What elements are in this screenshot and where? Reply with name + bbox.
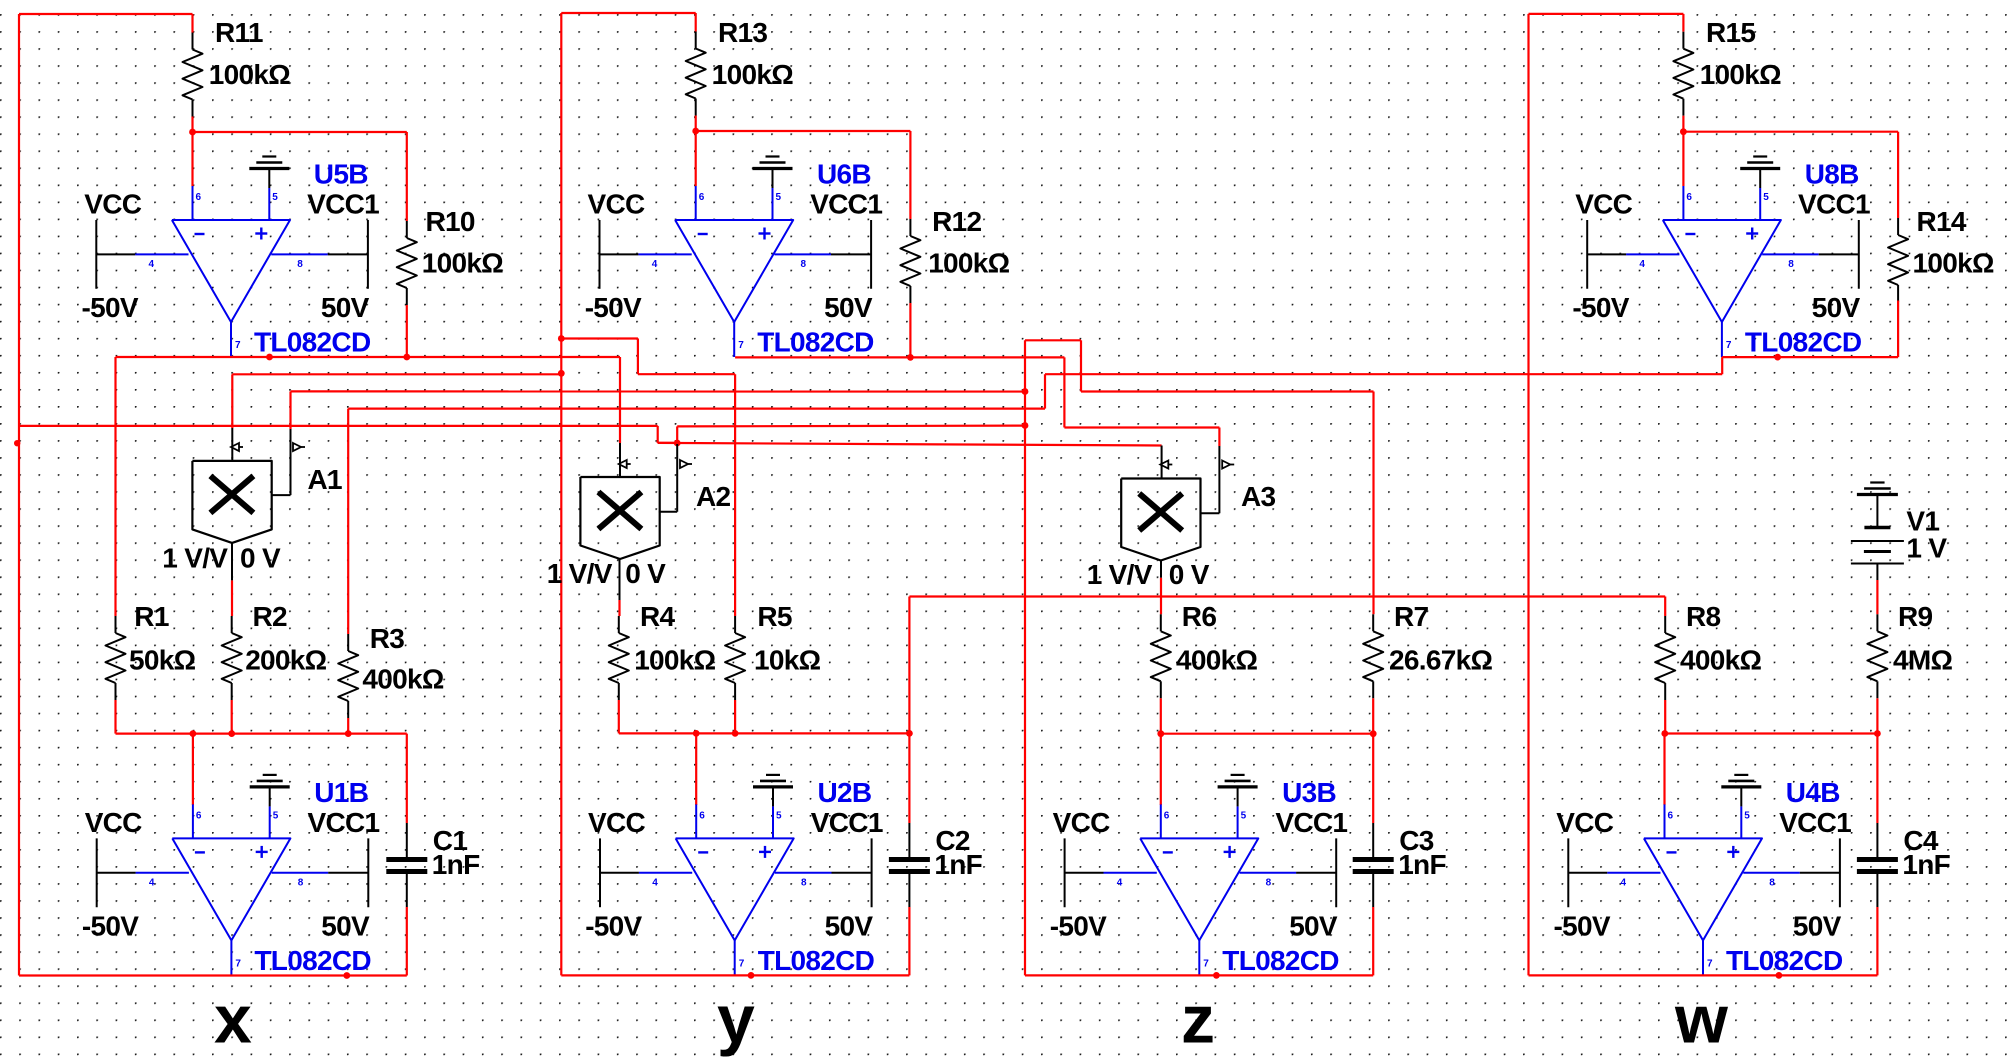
wire: R8 bottom to summing bus: [1664, 700, 1666, 734]
svg-text:6: 6: [1686, 192, 1692, 203]
wire: U1B summing bus (inverting node): [116, 732, 407, 734]
A3 y input pin: [1218, 446, 1220, 513]
VCC1/50V rail stub of U5B: [367, 220, 369, 289]
wire: top feed to R15: [1529, 13, 1684, 15]
svg-text:R8: R8: [1686, 601, 1721, 632]
svg-text:R1: R1: [134, 601, 169, 632]
wire: U6B minus input from node: [695, 131, 697, 186]
junction bus5b end on z border: [1022, 422, 1029, 429]
svg-text:-50V: -50V: [585, 911, 642, 942]
wire: R8 top from y summing line: [1664, 597, 1666, 617]
wire: U5B minus input from node: [191, 132, 193, 186]
svg-text:8: 8: [1266, 877, 1272, 888]
svg-text:R12: R12: [932, 206, 981, 237]
wire: U6B bus corner down (y to A3): [1063, 357, 1065, 427]
svg-text:6: 6: [196, 192, 202, 203]
ground above V1: [1857, 483, 1898, 495]
junction R3 on summing bus: [345, 730, 352, 737]
resistor R13 100kΩ: [686, 17, 794, 115]
svg-text:4: 4: [1117, 877, 1123, 888]
junction R10 bottom on output bus: [403, 354, 410, 361]
svg-text:R13: R13: [718, 17, 767, 48]
U3B inverting input pin (6): [1160, 804, 1162, 838]
VCC rail stub of U1B: [96, 838, 98, 907]
wire: w feedback left border (U4B output up to R15): [1527, 14, 1529, 976]
junction R7/C3 on summing bus: [1370, 730, 1377, 737]
U2B V- power pin wire: [639, 872, 692, 874]
ground: [753, 157, 793, 169]
svg-text:6: 6: [699, 192, 705, 203]
svg-text:100kΩ: 100kΩ: [422, 248, 503, 279]
svg-text:4: 4: [1621, 877, 1627, 888]
svg-text:-50V: -50V: [1572, 292, 1629, 323]
svg-text:U2B: U2B: [818, 777, 872, 808]
resistor R4 100kΩ: [609, 601, 716, 700]
wire: y net across to A3 y input: [1064, 426, 1219, 428]
svg-text:100kΩ: 100kΩ: [928, 248, 1009, 279]
svg-text:5: 5: [272, 192, 278, 203]
wire: x net to A3 x input (long): [658, 443, 1162, 446]
svg-text:1 V/V: 1 V/V: [547, 558, 613, 589]
U5B V- power pin wire: [135, 253, 188, 255]
svg-text:VCC1: VCC1: [1798, 189, 1870, 220]
svg-text:50V: 50V: [321, 292, 370, 323]
svg-text:5: 5: [776, 192, 782, 203]
U3B ground stub on + input: [1237, 787, 1239, 807]
resistor R9 4MΩ: [1867, 601, 1952, 698]
wire: bus4 jog up: [1044, 374, 1046, 408]
wire: L1 to R5 drop: [638, 373, 735, 375]
A1 y input pin: [290, 429, 292, 495]
svg-text:8: 8: [801, 259, 807, 270]
U4B minus mark: [1667, 851, 1677, 853]
wire: U2B output bus (y node): [561, 974, 909, 976]
wire: summing bus down to U4B minus input: [1663, 734, 1665, 806]
wire: U1B output bus (x node): [19, 974, 407, 976]
svg-text:1nF: 1nF: [1902, 849, 1950, 880]
op-amp U6B TL082CD: [585, 157, 883, 358]
svg-text:1 V: 1 V: [1906, 533, 1947, 564]
U5B V+ power pin wire: [271, 253, 328, 255]
resistor R7 26.67kΩ: [1363, 601, 1492, 698]
svg-text:50V: 50V: [321, 911, 370, 942]
wire: x feedback left border (U1B output up to R11): [18, 14, 20, 976]
U5B inverting input pin (6): [192, 186, 194, 220]
VCC1/50V rail stub of U8B: [1858, 220, 1860, 289]
U2B ground stub on + input: [772, 787, 774, 807]
U2B minus mark: [698, 851, 708, 853]
U5B minus mark: [195, 233, 205, 235]
U8B V+ power pin wire: [1762, 253, 1819, 255]
wire: summing bus to C2 top: [908, 733, 910, 823]
svg-text:U1B: U1B: [314, 777, 368, 808]
wire: ground to battery: [1876, 495, 1878, 528]
resistor R1 50kΩ: [106, 601, 196, 700]
VCC1/50V rail stub of U3B: [1335, 838, 1337, 907]
wire: y summing node to R8 (long): [909, 595, 1665, 597]
svg-text:8: 8: [1769, 877, 1775, 888]
svg-text:4MΩ: 4MΩ: [1893, 645, 1952, 676]
A1 output pin: [231, 542, 233, 580]
junction R13 bottom / U6B input node: [692, 128, 699, 135]
svg-text:6: 6: [1164, 810, 1170, 821]
wire: A2 x input drop from U5B bus: [619, 357, 621, 443]
svg-text:8: 8: [1788, 259, 1794, 270]
svg-text:50V: 50V: [825, 911, 874, 942]
wire: red stub to R13 top: [695, 13, 697, 32]
svg-text:8: 8: [297, 259, 303, 270]
U3B output pin (7): [1198, 940, 1200, 975]
U8B minus mark: [1685, 233, 1695, 235]
svg-text:10kΩ: 10kΩ: [754, 645, 821, 676]
VCC rail stub of U4B: [1567, 838, 1569, 907]
junction R6/minus drop on summing bus: [1157, 730, 1164, 737]
svg-text:R14: R14: [1917, 206, 1967, 237]
svg-text:TL082CD: TL082CD: [757, 327, 874, 358]
ground: [250, 775, 290, 787]
U8B output pin (7): [1721, 322, 1723, 357]
svg-text:w: w: [1674, 981, 1729, 1057]
svg-text:VCC: VCC: [1556, 807, 1613, 838]
wire: R13 bottom to node: [695, 116, 697, 132]
U6B ground stub on + input: [772, 169, 774, 189]
wire: jog to A2 y pin: [658, 442, 678, 444]
svg-text:50V: 50V: [824, 292, 873, 323]
U6B minus mark: [698, 233, 708, 235]
wire: U6B inverting node to R12: [696, 130, 911, 132]
U5B non-inverting input pin (5): [268, 188, 270, 220]
wire: R5 bottom to summing bus: [734, 700, 736, 733]
svg-text:TL082CD: TL082CD: [1745, 327, 1862, 358]
op-amp U8B TL082CD: [1572, 157, 1870, 358]
svg-text:z: z: [1181, 981, 1214, 1057]
U2B non-inverting input pin (5): [772, 806, 774, 838]
wire: z top staircase horizontal: [1025, 339, 1081, 341]
wire: bus3 corner down to A1 y input: [289, 391, 291, 429]
svg-text:R9: R9: [1898, 601, 1933, 632]
wire: y feedback left border (U2B output up to R13): [560, 13, 562, 975]
U4B ground stub on + input: [1740, 787, 1742, 807]
svg-text:VCC: VCC: [1575, 189, 1632, 220]
junction on U5B output bus: [266, 354, 273, 361]
battery V1 1 V DC source: [1851, 506, 1947, 564]
svg-text:8: 8: [298, 877, 304, 888]
A2 output pin: [619, 559, 621, 600]
wire: z border vertical (U3B output riser): [1024, 340, 1026, 975]
junction L1 start on y border: [558, 335, 565, 342]
U3B minus mark: [1163, 851, 1173, 853]
VCC rail stub of U5B: [95, 220, 97, 289]
ground: [1740, 157, 1780, 169]
svg-text:R11: R11: [215, 17, 263, 48]
wire: summing bus to C1 top: [406, 734, 408, 823]
svg-text:6: 6: [699, 810, 705, 821]
VCC rail stub of U3B: [1064, 838, 1066, 907]
wire: top feed to R11: [19, 13, 193, 15]
U2B plus mark: [759, 851, 771, 853]
wire: summing bus down to U1B minus input: [192, 734, 194, 805]
svg-text:TL082CD: TL082CD: [1222, 945, 1339, 976]
svg-text:50V: 50V: [1812, 292, 1861, 323]
A2 y input pin: [676, 444, 678, 512]
capacitor C1 1nF: [386, 823, 480, 907]
svg-text:A1: A1: [308, 464, 343, 495]
wire: bus5a (x output to A2/A3): [19, 425, 658, 427]
wire: red stub to R15 top: [1682, 14, 1684, 32]
svg-text:7: 7: [235, 340, 241, 351]
resistor R15 100kΩ: [1673, 17, 1781, 116]
wire: bus4 upper segment (w net): [1045, 373, 1722, 375]
U3B V- power pin wire: [1104, 872, 1157, 874]
wire: V1 to R9: [1876, 580, 1878, 614]
A3 x input pin: [1161, 446, 1163, 479]
U6B output pin (7): [733, 322, 735, 357]
resistor R3 400kΩ: [338, 623, 444, 718]
svg-text:5: 5: [273, 810, 279, 821]
junction U2B minus drop: [693, 730, 700, 737]
U6B pin numbers: [652, 192, 807, 351]
U8B plus mark: [1746, 232, 1758, 234]
svg-text:5: 5: [776, 810, 782, 821]
wire: U8B minus input from node: [1682, 132, 1684, 186]
svg-text:7: 7: [738, 340, 744, 351]
wire: bus5b to z border: [677, 425, 1025, 428]
svg-text:4: 4: [1639, 259, 1645, 270]
wire: R9 bottom to summing bus: [1876, 698, 1878, 733]
junction R2 on summing bus: [228, 730, 235, 737]
wire: U5B inverting node to R10: [193, 131, 407, 133]
wire: R6 bottom to summing bus: [1160, 698, 1162, 733]
resistor R10 100kΩ: [397, 206, 503, 305]
U5B pin numbers: [149, 192, 304, 351]
U4B non-inverting input pin (5): [1740, 806, 1742, 838]
U3B non-inverting input pin (5): [1237, 806, 1239, 838]
junction C2 riser on summing bus: [906, 730, 913, 737]
svg-text:1nF: 1nF: [432, 849, 480, 880]
svg-text:R4: R4: [640, 601, 676, 632]
svg-text:VCC1: VCC1: [308, 807, 380, 838]
U8B pin numbers: [1639, 192, 1794, 351]
U3B plus mark: [1224, 851, 1236, 853]
wire: C3 bottom to output bus: [1372, 907, 1374, 975]
svg-text:1nF: 1nF: [934, 849, 982, 880]
svg-text:VCC1: VCC1: [1779, 807, 1851, 838]
svg-text:50V: 50V: [1289, 911, 1338, 942]
wire: R4 bottom to summing bus: [618, 700, 620, 733]
U2B pin numbers: [652, 810, 807, 969]
wire: U2B summing bus: [619, 732, 910, 734]
svg-text:1nF: 1nF: [1398, 849, 1446, 880]
junction R11 bottom / U5B input node: [189, 129, 196, 136]
wire: R15 bottom to node: [1682, 116, 1684, 132]
U3B V+ power pin wire: [1240, 872, 1297, 874]
op-amp U3B TL082CD: [1050, 775, 1348, 976]
svg-text:4: 4: [652, 877, 658, 888]
wire: bus2 corner down to A1 x input: [231, 374, 233, 428]
U2B inverting input pin (6): [695, 804, 697, 838]
VCC1/50V rail stub of U2B: [871, 838, 873, 907]
U4B output pin (7): [1702, 940, 1704, 975]
svg-text:200kΩ: 200kΩ: [245, 645, 326, 676]
junction U1B minus drop: [190, 730, 197, 737]
wire: R5 drop from y net: [734, 374, 736, 616]
wire: L1 (y net) across: [561, 337, 638, 339]
U8B V- power pin wire: [1626, 253, 1679, 255]
U1B V- power pin wire: [136, 872, 189, 874]
svg-text:-50V: -50V: [82, 911, 139, 942]
U5B plus mark: [255, 232, 267, 234]
svg-text:R3: R3: [370, 623, 405, 654]
svg-text:7: 7: [1726, 340, 1732, 351]
svg-text:7: 7: [1707, 958, 1713, 969]
U1B output pin (7): [230, 940, 232, 975]
junction R9/C4 on summing bus: [1874, 730, 1881, 737]
U4B inverting input pin (6): [1664, 804, 1666, 838]
U6B non-inverting input pin (5): [772, 188, 774, 220]
wire: z staircase down: [1080, 340, 1082, 391]
wire: U6B output bus: [735, 356, 1064, 358]
svg-text:U5B: U5B: [314, 159, 368, 190]
svg-text:VCC1: VCC1: [307, 189, 379, 220]
wire: C2 bottom to output bus: [908, 907, 910, 975]
svg-text:4: 4: [149, 259, 155, 270]
junction on y output bus: [748, 972, 755, 979]
resistor R2 200kΩ: [222, 601, 327, 700]
wire: top feed to R13: [561, 12, 695, 14]
resistor R14 100kΩ: [1888, 206, 1994, 302]
junction R15 bottom / U8B input node: [1680, 128, 1687, 135]
svg-text:0 V: 0 V: [240, 543, 281, 574]
svg-text:VCC: VCC: [1053, 807, 1110, 838]
wire: R7 drop: [1372, 392, 1374, 615]
op-amp U5B TL082CD: [82, 157, 380, 358]
svg-text:-50V: -50V: [82, 292, 139, 323]
wire: R11 bottom to node: [191, 117, 193, 133]
svg-text:5: 5: [1744, 810, 1750, 821]
svg-text:100kΩ: 100kΩ: [1700, 59, 1781, 90]
U6B V+ power pin wire: [775, 253, 832, 255]
wire: bus3 (z net to A1 y input): [291, 390, 1026, 392]
svg-text:400kΩ: 400kΩ: [1176, 645, 1257, 676]
A2 x input pin: [619, 443, 621, 477]
wire: R10 bottom to output bus: [406, 305, 408, 357]
junction R8/minus drop on summing bus: [1661, 730, 1668, 737]
junction at A2 y pin: [674, 440, 681, 447]
svg-text:VCC1: VCC1: [810, 189, 882, 220]
VCC1/50V rail stub of U4B: [1839, 838, 1841, 907]
wire: U8B output bus: [1722, 356, 1898, 358]
wire: U8B inverting node to R14: [1683, 131, 1898, 133]
svg-text:-50V: -50V: [1050, 911, 1107, 942]
svg-text:R6: R6: [1182, 601, 1217, 632]
U5B output pin (7): [230, 322, 232, 357]
svg-text:-50V: -50V: [585, 292, 642, 323]
battery output stub: [1876, 564, 1878, 581]
svg-text:VCC: VCC: [84, 189, 141, 220]
resistor R12 100kΩ: [900, 206, 1009, 303]
wire: bus4 down to R3: [347, 409, 349, 634]
junction bus2 end on y border: [558, 370, 565, 377]
svg-text:U8B: U8B: [1805, 159, 1859, 190]
ground: [249, 157, 289, 169]
capacitor C3 1nF: [1353, 823, 1447, 907]
wire: bus4 (w net to R3) horizontal: [348, 408, 1045, 410]
svg-text:6: 6: [1668, 810, 1674, 821]
wire: U4B summing bus: [1665, 732, 1878, 734]
svg-text:R10: R10: [426, 206, 475, 237]
U6B plus mark: [759, 232, 771, 234]
svg-text:400kΩ: 400kΩ: [362, 664, 443, 695]
svg-text:50V: 50V: [1793, 911, 1842, 942]
junction on x output bus: [343, 972, 350, 979]
svg-text:100kΩ: 100kΩ: [634, 645, 715, 676]
junction on w output bus: [1776, 972, 1783, 979]
svg-text:TL082CD: TL082CD: [758, 945, 875, 976]
svg-text:x: x: [214, 981, 252, 1057]
wire: U3B summing bus: [1161, 733, 1373, 735]
A3 output pin: [1160, 561, 1162, 578]
U4B plus mark: [1727, 851, 1739, 853]
svg-text:A2: A2: [696, 481, 731, 512]
svg-text:VCC: VCC: [588, 189, 645, 220]
VCC rail stub of U8B: [1586, 220, 1588, 289]
wire: R7 bottom to summing bus: [1372, 698, 1374, 733]
U1B V+ power pin wire: [272, 872, 329, 874]
svg-text:U3B: U3B: [1282, 777, 1336, 808]
U3B pin numbers: [1117, 810, 1272, 969]
svg-text:4: 4: [652, 259, 658, 270]
ground: [1218, 775, 1258, 787]
U1B minus mark: [195, 851, 205, 853]
VCC1/50V rail stub of U1B: [367, 838, 369, 907]
svg-text:1 V/V: 1 V/V: [1087, 559, 1153, 590]
resistor R8 400kΩ: [1655, 601, 1761, 700]
svg-text:50kΩ: 50kΩ: [129, 645, 196, 676]
wire: R2 bottom to summing bus: [231, 700, 233, 734]
svg-text:0 V: 0 V: [625, 558, 666, 589]
A1 x input pin: [231, 428, 233, 461]
wire: bus5a jog down: [657, 426, 659, 443]
svg-text:A3: A3: [1241, 481, 1276, 512]
U4B V+ power pin wire: [1743, 872, 1800, 874]
svg-text:VCC: VCC: [588, 807, 645, 838]
svg-text:100kΩ: 100kΩ: [209, 59, 290, 90]
svg-text:4: 4: [149, 877, 155, 888]
VCC rail stub of U6B: [599, 220, 601, 289]
svg-text:100kΩ: 100kΩ: [712, 59, 793, 90]
svg-text:8: 8: [801, 877, 807, 888]
ground: [753, 775, 793, 787]
U1B inverting input pin (6): [192, 804, 194, 838]
op-amp U4B TL082CD: [1554, 775, 1852, 976]
wire: summing bus down to U2B minus input: [695, 733, 697, 805]
U8B inverting input pin (6): [1682, 186, 1684, 220]
wire: A1 output to R2: [231, 580, 233, 616]
wire: C1 bottom to output bus: [406, 907, 408, 976]
multiplier A3 (analog multiplier block): [1087, 479, 1276, 591]
U2B output pin (7): [734, 940, 736, 975]
svg-text:26.67kΩ: 26.67kΩ: [1389, 645, 1492, 676]
svg-text:TL082CD: TL082CD: [1726, 945, 1843, 976]
wire: A3 y input drop: [1218, 428, 1220, 447]
svg-text:TL082CD: TL082CD: [254, 945, 371, 976]
U4B V- power pin wire: [1607, 872, 1660, 874]
VCC rail stub of U2B: [599, 838, 601, 907]
svg-text:1 V/V: 1 V/V: [162, 543, 228, 574]
junction stub on left border: [14, 440, 20, 446]
wire: C4 bottom to output bus: [1876, 907, 1878, 975]
junction R5 on summing bus: [732, 730, 739, 737]
